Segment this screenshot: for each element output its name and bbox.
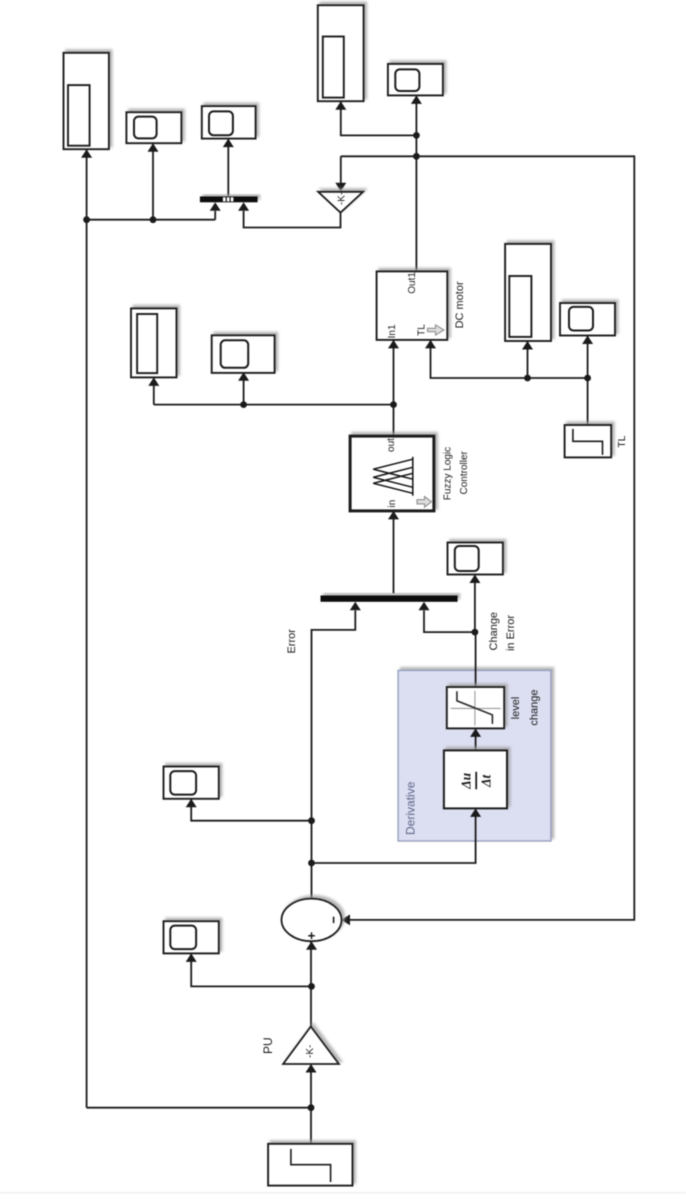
gain PU (-K-, pointing up) — [283, 1027, 339, 1065]
arrow into du/dt — [470, 808, 481, 817]
wire — [153, 378, 155, 405]
wire — [244, 211, 341, 228]
svg-text:Controller: Controller — [459, 450, 470, 494]
arrow into DC motor In1 — [388, 340, 399, 349]
junction — [472, 629, 479, 636]
wire — [312, 611, 356, 899]
arrow into Scope D — [522, 341, 533, 350]
svg-text:Change: Change — [488, 612, 500, 651]
arrow into Scope7 — [186, 799, 197, 808]
junction — [413, 153, 420, 160]
wire — [312, 809, 476, 863]
gain K1 (-K-, pointing down) — [318, 192, 363, 213]
junction — [308, 983, 315, 990]
Derivative group box — [398, 670, 551, 841]
wire — [227, 139, 229, 196]
wire — [587, 336, 589, 425]
arrow into Scope C — [148, 377, 159, 386]
scope1 (top-left small) — [126, 112, 181, 143]
junction — [390, 401, 397, 408]
junction — [308, 1104, 315, 1111]
wire — [87, 219, 216, 221]
svg-text:Fuzzy Logic: Fuzzy Logic — [443, 447, 454, 500]
arrow into saturation — [470, 728, 481, 737]
svg-text:-K-: -K- — [336, 192, 347, 205]
arrow into DC motor TL — [425, 340, 436, 349]
wire — [154, 404, 394, 406]
arrow into Scope B — [335, 101, 346, 110]
wire — [424, 611, 475, 633]
step source TL — [565, 425, 612, 457]
saturation block (level change) — [447, 687, 504, 728]
arrow into Scope1 — [148, 143, 159, 152]
scope D (right of DC motor) — [505, 244, 551, 341]
arrow mux1 in1 — [210, 202, 221, 211]
arrow into gain PU — [306, 1064, 317, 1073]
junction — [240, 401, 247, 408]
arrow into Sum (plus) — [306, 941, 317, 950]
arrow mux2 in1 — [350, 602, 361, 611]
scope B (tall, top-center) — [318, 5, 364, 101]
derivative du/dt block — [444, 750, 507, 808]
svg-text:TL: TL — [616, 435, 628, 447]
svg-text:in: in — [387, 500, 398, 508]
mux1 (small black bar) — [200, 196, 258, 202]
wire — [527, 342, 529, 378]
svg-text:PU: PU — [261, 1037, 275, 1054]
svg-text:level: level — [510, 697, 522, 720]
arrow into Scope3 — [411, 95, 422, 104]
DC motor subsystem block — [377, 271, 448, 340]
scope2 (above mux1) — [202, 106, 256, 139]
wire — [393, 512, 395, 594]
junction — [413, 132, 420, 139]
sum junction — [282, 899, 342, 942]
svg-text:change: change — [528, 690, 540, 726]
svg-text:TL: TL — [416, 324, 427, 336]
wire — [87, 1107, 311, 1109]
junction — [83, 216, 90, 223]
arrow mux1 in2 — [238, 202, 249, 211]
wire — [393, 341, 395, 437]
wire — [191, 954, 311, 986]
wire — [341, 155, 417, 157]
wire — [474, 575, 476, 632]
mux2 (big black bar) — [321, 596, 458, 602]
junction — [308, 817, 315, 824]
svg-text:Out1: Out1 — [407, 272, 418, 294]
wire — [152, 144, 154, 220]
Fuzzy Logic Controller block — [350, 436, 434, 511]
arrow into gain K1 — [335, 183, 346, 192]
arrow into Scope A — [81, 149, 92, 158]
wire — [350, 156, 634, 920]
arrow into Scope8 — [186, 953, 197, 962]
svg-text:out: out — [386, 438, 397, 452]
wire — [214, 211, 216, 220]
svg-text:in Error: in Error — [505, 615, 517, 651]
junction — [150, 216, 157, 223]
scope3 (top, motor out) — [388, 64, 443, 96]
wire — [475, 632, 477, 687]
junction — [524, 375, 531, 382]
scope C (mid-left) — [131, 308, 177, 377]
scope6 (change in error) — [448, 543, 503, 575]
scope4 (right, TL) — [560, 303, 615, 336]
scope5 (mid, control u) — [212, 335, 275, 373]
arrow into Scope2 — [223, 139, 234, 148]
arrow into Scope6 — [469, 575, 480, 584]
fuzzy membership glyph — [373, 457, 413, 496]
svg-text:Derivative: Derivative — [403, 781, 417, 835]
arrow mux2 in2 — [419, 602, 430, 611]
wire — [475, 729, 477, 750]
wire — [86, 220, 88, 1108]
arrow into Scope4 — [582, 336, 593, 345]
svg-text:-K-: -K- — [305, 1045, 316, 1058]
junction — [308, 860, 315, 867]
wire — [191, 800, 311, 821]
svg-text:DC motor: DC motor — [454, 281, 466, 328]
scope8 (sum input) — [164, 921, 219, 953]
wire — [431, 341, 588, 378]
junction — [584, 375, 591, 382]
wire — [310, 942, 312, 1027]
svg-text:Error: Error — [286, 629, 298, 654]
arrow into Sum (minus) — [342, 914, 351, 925]
wire — [86, 150, 88, 220]
wire — [415, 96, 417, 271]
wire — [340, 156, 342, 183]
wire — [341, 102, 417, 135]
arrow into Scope5 — [238, 372, 249, 381]
svg-text:In1: In1 — [387, 324, 398, 338]
gray port arrow (fuzzy) — [417, 497, 432, 508]
scope A (tall, top-left) — [64, 53, 109, 149]
svg-text:Δt: Δt — [479, 773, 494, 787]
wire — [243, 373, 245, 405]
faint page hairline — [0, 1192, 686, 1193]
wire — [310, 1065, 312, 1144]
arrow into Fuzzy in — [388, 511, 399, 520]
gray port arrow (DC motor TL) — [428, 325, 444, 335]
step source (input) — [268, 1144, 352, 1186]
scope7 (error) — [164, 767, 219, 799]
svg-text:Δu: Δu — [459, 772, 474, 789]
